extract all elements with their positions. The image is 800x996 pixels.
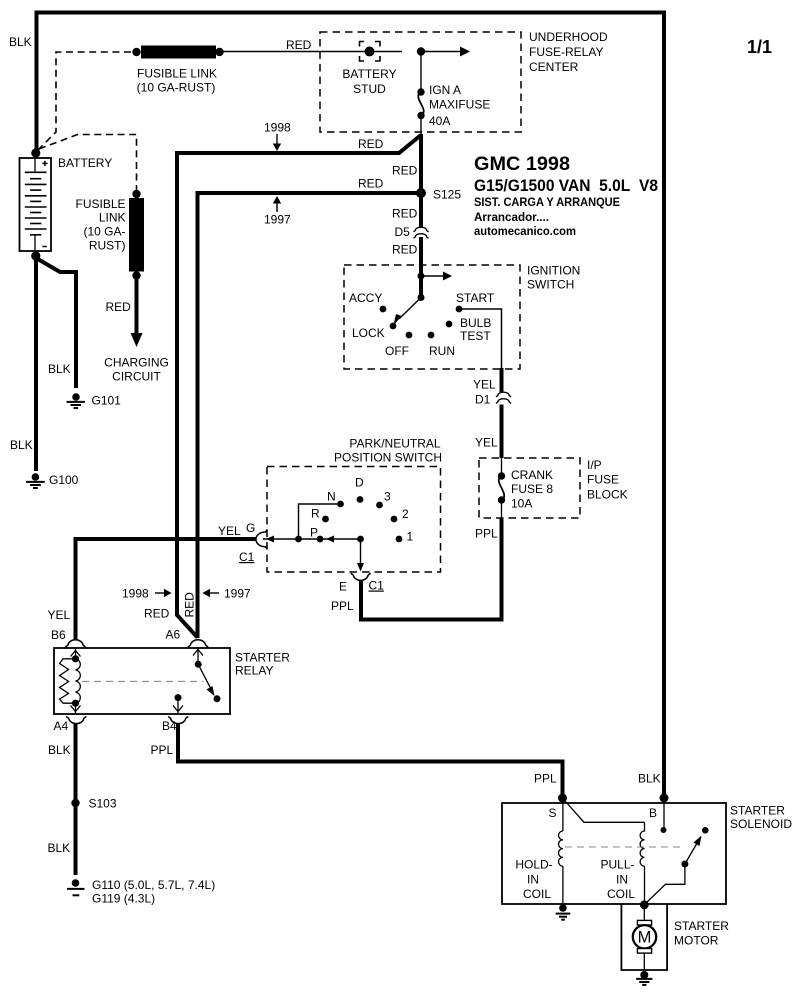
ground hold-in coil	[556, 904, 571, 920]
contact P	[317, 536, 324, 543]
ground G100	[26, 473, 45, 488]
arrow into E	[357, 563, 364, 572]
svg-text:B4: B4	[162, 719, 177, 733]
relay fixed contact	[195, 661, 202, 668]
contact 3	[376, 502, 383, 509]
arrow at P	[326, 536, 334, 543]
solenoid B fixed contact	[661, 827, 667, 833]
pull-in coil	[640, 822, 644, 866]
svg-text:B6: B6	[51, 628, 66, 642]
node ignition wiper pivot	[418, 294, 425, 301]
svg-text:RED: RED	[286, 38, 312, 52]
wire arm linkage to motor node	[645, 864, 685, 905]
svg-text:IGN A: IGN A	[429, 83, 461, 97]
wire RED main vertical lower to ignition	[419, 237, 423, 297]
contact ACCY	[380, 306, 387, 313]
svg-text:1998: 1998	[264, 121, 291, 135]
svg-text:10A: 10A	[511, 497, 532, 511]
wire dashed battery+ to fusible link F1	[37, 52, 131, 151]
svg-text:RED: RED	[144, 607, 170, 621]
I/P fuse block box	[479, 458, 580, 518]
svg-text:BLK: BLK	[638, 772, 661, 786]
svg-text:FUSE: FUSE	[587, 473, 619, 487]
ground G110/G119	[67, 879, 85, 895]
svg-text:PPL: PPL	[475, 527, 498, 541]
ignition switch box	[344, 265, 520, 369]
svg-text:FUSE-RELAY: FUSE-RELAY	[529, 45, 603, 59]
fusible link F1 (10 GA-RUST)	[132, 46, 223, 59]
svg-text:BLK: BLK	[9, 35, 32, 49]
svg-text:G100: G100	[49, 473, 79, 487]
DASHED-WIRES battery links	[37, 52, 137, 190]
wire YEL D1 to I/P fuse block	[500, 405, 504, 459]
svg-text:N: N	[327, 490, 336, 504]
node solenoid S terminal	[558, 794, 567, 803]
contact R	[322, 516, 329, 523]
svg-text:LOCK: LOCK	[352, 326, 385, 340]
arrow 1998 down (top)	[273, 134, 281, 151]
svg-text:Arrancador....: Arrancador....	[474, 210, 549, 224]
wire RED main vertical upper	[419, 134, 423, 228]
node N-P junction	[295, 536, 302, 543]
contact LOCK	[390, 323, 397, 330]
svg-text:1997: 1997	[264, 213, 291, 227]
wire A6 into contact with arrow	[197, 648, 199, 664]
solenoid arm pivot contact	[681, 861, 688, 868]
svg-text:MOTOR: MOTOR	[674, 934, 719, 948]
svg-text:G119 (4.3L): G119 (4.3L)	[92, 892, 155, 906]
svg-text:BLK: BLK	[10, 438, 33, 452]
wiper arm toward LOCK	[399, 298, 421, 320]
svg-text:FUSE 8: FUSE 8	[511, 482, 553, 496]
solenoid arm upper contact	[702, 827, 709, 834]
svg-text:RED: RED	[358, 137, 384, 151]
svg-text:3: 3	[384, 490, 391, 504]
dashed actuation line	[82, 680, 204, 682]
svg-text:BLK: BLK	[48, 841, 71, 855]
svg-text:A4: A4	[54, 719, 69, 733]
arrow into G	[266, 536, 274, 543]
svg-text:P: P	[310, 526, 318, 540]
relay B4 contact	[175, 694, 182, 701]
starter solenoid box	[502, 803, 726, 904]
wire B to fixed contact	[663, 798, 665, 829]
svg-text:GMC 1998: GMC 1998	[474, 154, 570, 175]
svg-text:PPL: PPL	[331, 599, 354, 613]
contact N	[337, 501, 344, 508]
wire BLK battery- to G100	[34, 258, 38, 471]
WIRES-THICK	[36, 13, 664, 876]
wire PPL crank fuse to park/neutral E	[361, 518, 502, 620]
wire RED fusible link 2 to charging circuit	[135, 277, 139, 334]
solenoid movable arm with arrow	[685, 842, 698, 865]
svg-text:S125: S125	[433, 188, 461, 202]
fuse IGN A MAXIFUSE 40A	[417, 88, 424, 135]
svg-text:STUD: STUD	[353, 82, 386, 96]
svg-text:automecanico.com: automecanico.com	[474, 224, 576, 238]
svg-text:PARK/NEUTRAL: PARK/NEUTRAL	[349, 437, 440, 451]
svg-text:C1: C1	[239, 550, 255, 564]
contact OFF	[406, 332, 413, 339]
svg-text:HOLD-: HOLD-	[515, 858, 552, 872]
node solenoid B terminal	[660, 794, 669, 803]
STARTER MOTOR M1	[633, 905, 656, 969]
svg-text:OFF: OFF	[385, 344, 409, 358]
wire YEL ignition to D1	[500, 368, 504, 392]
svg-text:IGNITION: IGNITION	[527, 264, 580, 278]
wire RED 1998 feed	[177, 135, 421, 638]
svg-text:SIST. CARGA Y ARRANQUE: SIST. CARGA Y ARRANQUE	[474, 195, 620, 209]
svg-text:S: S	[549, 806, 557, 820]
wire battery stud to IGN A maxifuse	[420, 52, 422, 92]
svg-text:D: D	[355, 476, 364, 490]
wire B6 into coil with arrow	[75, 648, 77, 658]
svg-text:STARTER: STARTER	[674, 919, 729, 933]
STARTER RELAY internals	[60, 640, 221, 724]
svg-text:CIRCUIT: CIRCUIT	[112, 370, 161, 384]
wire BLK battery+ to top to solenoid B	[37, 13, 665, 798]
node S125	[416, 188, 426, 198]
wire arrow out of battery stud junction	[421, 47, 470, 57]
svg-text:RED: RED	[106, 300, 132, 314]
svg-text:MAXIFUSE: MAXIFUSE	[429, 98, 490, 112]
wire contact N leg	[299, 504, 341, 539]
svg-text:FUSIBLE: FUSIBLE	[75, 197, 125, 211]
svg-text:LINK: LINK	[99, 211, 126, 225]
relay movable arm	[198, 664, 211, 689]
svg-text:COIL: COIL	[523, 887, 551, 901]
wire wiper bus to G	[263, 538, 361, 540]
svg-text:G: G	[246, 521, 255, 535]
wire START to YEL output	[459, 309, 502, 369]
connector D1	[496, 392, 511, 403]
svg-text:BATTERY: BATTERY	[58, 156, 112, 170]
svg-text:FUSIBLE LINK: FUSIBLE LINK	[137, 67, 217, 81]
arrow 1998 right (relay)	[155, 589, 172, 597]
wire S to pull-in coil	[563, 799, 645, 823]
svg-text:D5: D5	[395, 225, 411, 239]
svg-text:POSITION SWITCH: POSITION SWITCH	[334, 451, 442, 465]
park/neutral position switch box	[267, 467, 441, 573]
connector cup A6	[188, 640, 208, 647]
svg-text:YEL: YEL	[473, 378, 496, 392]
svg-text:BLK: BLK	[48, 743, 71, 757]
svg-text:I/P: I/P	[587, 458, 602, 472]
wire RED 1997 feed	[198, 193, 422, 638]
wire coil to A4 with arrow	[75, 703, 77, 714]
contact START	[456, 306, 463, 313]
svg-text:1/1: 1/1	[747, 37, 772, 57]
battery stud	[360, 42, 381, 62]
arrow to charging circuit	[131, 333, 143, 347]
node wiper junction	[357, 536, 364, 543]
svg-text:IN: IN	[616, 873, 628, 887]
svg-text:STARTER: STARTER	[235, 651, 290, 665]
svg-text:G101: G101	[92, 394, 122, 408]
node battery positive	[31, 148, 40, 157]
PARK/NEUTRAL SWITCH internals	[263, 496, 402, 571]
svg-text:RED: RED	[392, 164, 418, 178]
connector cup B6	[65, 640, 85, 647]
svg-text:PPL: PPL	[534, 772, 557, 786]
svg-text:SOLENOID: SOLENOID	[730, 817, 792, 831]
svg-text:PULL-: PULL-	[600, 858, 634, 872]
svg-text:RUST): RUST)	[89, 239, 126, 253]
svg-text:BULB: BULB	[460, 316, 491, 330]
arrow 1997 up (top)	[273, 196, 281, 212]
svg-text:1: 1	[407, 530, 414, 544]
svg-text:2: 2	[402, 507, 409, 521]
svg-text:YEL: YEL	[475, 436, 498, 450]
svg-text:COIL: COIL	[607, 887, 635, 901]
svg-text:PPL: PPL	[151, 743, 174, 757]
contact D	[357, 496, 364, 503]
svg-text:RELAY: RELAY	[235, 664, 273, 678]
node junction above IGN A fuse	[417, 47, 425, 55]
fuse CRANK FUSE 8 10A	[498, 458, 505, 518]
starter relay box	[54, 648, 230, 714]
hold-in coil	[562, 798, 564, 831]
svg-text:(10 GA-: (10 GA-	[83, 225, 125, 239]
ground G101	[67, 393, 86, 408]
svg-text:CENTER: CENTER	[529, 60, 579, 74]
wire BLK relay A4 to G110	[74, 723, 78, 875]
arrow 1997 left (relay)	[203, 589, 220, 597]
node S103	[71, 799, 79, 807]
svg-text:M: M	[638, 929, 652, 947]
connector cup A4	[66, 717, 86, 724]
contact RUN	[428, 332, 435, 339]
relay coil K1	[72, 655, 79, 662]
battery B1	[20, 158, 52, 251]
connector cup B4	[168, 717, 188, 724]
fusible link F2 (10 GA-RUST)	[129, 190, 144, 280]
svg-text:ACCY: ACCY	[349, 291, 382, 305]
svg-text:UNDERHOOD: UNDERHOOD	[529, 30, 608, 44]
wire B4 contact down with arrow	[177, 698, 179, 714]
node battery negative	[31, 251, 40, 260]
svg-text:CRANK: CRANK	[511, 468, 553, 482]
svg-text:YEL: YEL	[218, 524, 241, 538]
wire PPL relay B4 to solenoid S	[178, 723, 563, 797]
IGNITION SWITCH internals	[380, 272, 502, 370]
node ignition feed junction	[418, 273, 425, 280]
svg-text:C1: C1	[369, 579, 385, 593]
svg-text:BATTERY: BATTERY	[342, 67, 396, 81]
wire RED fusible link F1 to battery stud	[223, 51, 402, 53]
ground starter motor	[636, 971, 652, 985]
svg-text:BLK: BLK	[48, 362, 71, 376]
svg-text:1997: 1997	[224, 587, 251, 601]
relay arm rest contact	[214, 695, 221, 702]
connector D5	[413, 227, 428, 238]
svg-text:CHARGING: CHARGING	[104, 356, 169, 370]
svg-text:(10 GA-RUST): (10 GA-RUST)	[137, 81, 216, 95]
wire YEL park/neutral G to relay B6	[76, 539, 257, 640]
svg-text:D1: D1	[475, 393, 491, 407]
contact 2	[391, 516, 398, 523]
wire dashed battery+ to fusible link F2	[39, 135, 137, 191]
node motor feed junction	[640, 900, 649, 909]
svg-text:E: E	[339, 580, 347, 594]
starter motor box	[621, 904, 667, 970]
svg-text:1998: 1998	[122, 587, 149, 601]
svg-text:RED: RED	[358, 177, 384, 191]
svg-text:40A: 40A	[429, 114, 450, 128]
svg-text:B: B	[649, 806, 657, 820]
underhood fuse-relay center box	[320, 32, 521, 132]
svg-text:BLOCK: BLOCK	[587, 488, 628, 502]
svg-text:A6: A6	[166, 628, 181, 642]
connector C1 pin E	[351, 573, 371, 580]
connector C1 pin G	[256, 530, 267, 550]
svg-text:G15/G1500 VAN 5.0L V8: G15/G1500 VAN 5.0L V8	[474, 176, 658, 195]
svg-text:TEST: TEST	[460, 329, 491, 343]
contact BULB TEST	[446, 321, 453, 328]
title block	[474, 37, 772, 238]
svg-text:G110 (5.0L, 5.7L, 7.4L): G110 (5.0L, 5.7L, 7.4L)	[92, 878, 215, 892]
svg-text:S103: S103	[89, 797, 117, 811]
dashed actuation line	[565, 846, 683, 848]
svg-text:SWITCH: SWITCH	[527, 278, 574, 292]
svg-text:RED: RED	[183, 592, 197, 618]
svg-text:IN: IN	[527, 873, 539, 887]
svg-text:R: R	[311, 507, 320, 521]
svg-text:RUN: RUN	[429, 344, 455, 358]
wire wiper to E	[360, 539, 362, 566]
svg-text:RED: RED	[392, 243, 418, 257]
svg-text:STARTER: STARTER	[730, 804, 785, 818]
contact 1	[396, 536, 403, 543]
svg-text:RED: RED	[392, 207, 418, 221]
wire arrow right from ignition feed	[421, 275, 444, 277]
STARTER SOLENOID internals	[558, 794, 709, 910]
wire BLK battery- branch to G101	[36, 258, 76, 388]
svg-text:YEL: YEL	[48, 608, 71, 622]
svg-text:START: START	[456, 291, 495, 305]
